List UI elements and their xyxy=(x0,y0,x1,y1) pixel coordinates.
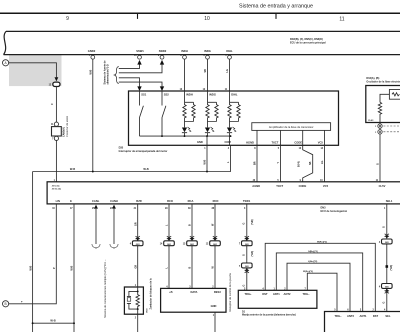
svg-text:11: 11 xyxy=(339,16,344,22)
svg-text:ECU de la carrocería principal: ECU de la carrocería principal xyxy=(290,42,326,45)
switch SS1 xyxy=(140,91,144,136)
svg-text:VC5: VC5 xyxy=(323,184,329,188)
svg-text:DST: DST xyxy=(373,314,379,318)
svg-text:ANT2: ANT2 xyxy=(347,314,354,318)
svg-text:W-B: W-B xyxy=(70,167,75,171)
svg-text:BZR: BZR xyxy=(136,199,142,203)
svg-text:DIHL: DIHL xyxy=(226,49,233,53)
wire GND2 down to W-B net xyxy=(92,59,94,171)
svg-text:G: G xyxy=(377,163,380,165)
svg-text:LIN: LIN xyxy=(56,199,60,203)
svg-text:Zumbador de bloqueo de la: Zumbador de bloqueo de la xyxy=(149,278,152,310)
junction dot link right xyxy=(73,322,75,324)
resistor R (oscillator) xyxy=(378,102,381,123)
R50 internals: branch xyxy=(127,287,138,309)
pin SSW1 xyxy=(134,49,144,59)
svg-text:W-B: W-B xyxy=(50,319,55,323)
svg-text:GR: GR xyxy=(134,222,137,226)
wire between rings xyxy=(379,128,381,129)
DN3 bottom pin CANL xyxy=(92,199,100,210)
svg-text:GND: GND xyxy=(211,304,217,308)
svg-text:RCO: RCO xyxy=(167,199,173,203)
DN3 bottom pin SEL1 xyxy=(384,199,393,210)
wire BZR down xyxy=(137,204,139,287)
pin INDH xyxy=(180,49,187,59)
handle FR pin labels xyxy=(244,292,310,296)
svg-text:TXCT: TXCT xyxy=(271,140,278,144)
svg-text:W-B: W-B xyxy=(204,159,207,164)
svg-text:DIHL: DIHL xyxy=(231,93,238,97)
oscillator D64 box xyxy=(366,86,400,123)
svg-text:W(Rn)(*2): W(Rn)(*2) xyxy=(317,241,327,243)
pin DIHL xyxy=(225,49,233,59)
svg-text:AGND: AGND xyxy=(252,184,260,188)
header tick 2 xyxy=(275,13,277,19)
DN3 bottom pin CANH xyxy=(110,199,118,210)
svg-text:Interruptor de arranque/parada: Interruptor de arranque/parada del motor xyxy=(119,150,168,153)
resistor pair INDG xyxy=(206,91,218,122)
pin INDG xyxy=(203,49,210,59)
svg-text:RES3: RES3 xyxy=(214,290,221,294)
staircase wire ANT2 xyxy=(287,263,350,311)
wire VC5 down xyxy=(324,145,326,182)
svg-text:Receptor de control de la puer: Receptor de control de la puerta xyxy=(228,273,232,312)
inline connector on RCO xyxy=(160,236,175,246)
pin GND2 xyxy=(88,49,96,59)
svg-text:INDG: INDG xyxy=(204,49,211,53)
wire rung to SSW1 xyxy=(119,64,140,68)
arrow down into SS2 xyxy=(160,86,164,91)
receiver pin labels xyxy=(169,290,221,294)
DN3 bottom pin RCA xyxy=(188,199,194,210)
svg-text:SSW2: SSW2 xyxy=(159,49,167,53)
DN3 internal references xyxy=(50,186,61,191)
svg-text:Oscilador de la llave electrón: Oscilador de la llave electrónica (p xyxy=(366,80,400,83)
svg-text:B(*4): B(*4) xyxy=(298,161,301,167)
wire W-B left riser xyxy=(32,172,34,332)
door control receiver box xyxy=(161,288,226,312)
wire TSW1 down xyxy=(246,204,248,290)
amplifier leads to box edge xyxy=(257,130,325,145)
svg-text:L(Bn)(*2): L(Bn)(*2) xyxy=(308,261,318,263)
dashed mate line 2 xyxy=(383,131,400,133)
svg-text:GB1: GB1 xyxy=(385,287,389,289)
svg-text:G: G xyxy=(383,302,386,304)
CANL brace end xyxy=(92,244,100,249)
svg-text:GB1: GB1 xyxy=(245,266,249,268)
svg-text:COM: COM xyxy=(225,140,232,144)
svg-text:TSW1: TSW1 xyxy=(243,199,251,203)
receiver top pin numbers xyxy=(166,286,214,289)
LED INDH xyxy=(182,122,191,137)
wire rung to SSW2 xyxy=(119,64,162,73)
svg-text:SS1: SS1 xyxy=(141,93,147,97)
svg-text:GB1: GB1 xyxy=(136,244,140,246)
svg-text:Conector de unión: Conector de unión xyxy=(65,115,69,137)
wire CODE down with jog xyxy=(303,145,313,182)
oscillator inner module xyxy=(389,90,400,100)
svg-text:G: G xyxy=(243,285,246,287)
DN3 top pin VC5 xyxy=(320,180,328,188)
staircase wire DST xyxy=(265,243,375,311)
handle FR designator xyxy=(242,310,296,316)
junction dot link left xyxy=(32,322,34,324)
svg-text:BR: BR xyxy=(254,161,257,165)
svg-text:GB1: GB1 xyxy=(385,242,389,244)
svg-text:W-B: W-B xyxy=(143,167,148,171)
wire junction connector to DN3 pin 1 xyxy=(55,141,57,182)
DN3 bottom pin RCO xyxy=(165,199,173,210)
junction dot COM drop xyxy=(230,135,232,137)
DN3 top pin CODE xyxy=(299,180,307,188)
wire RCD down xyxy=(214,204,216,289)
wire DIHL down xyxy=(229,59,231,91)
svg-text:+B: +B xyxy=(169,290,173,294)
svg-text:G(Bn)(*2): G(Bn)(*2) xyxy=(308,251,318,253)
inline connector 2 on TSW1 xyxy=(239,263,252,273)
wire RCO down xyxy=(168,204,170,289)
svg-text:(*H6): (*H6) xyxy=(390,265,393,271)
svg-text:ECU de homologación: ECU de homologación xyxy=(321,210,348,213)
wire from node A to connector xyxy=(9,63,57,78)
node A circle xyxy=(3,60,9,66)
junction dot GND2/bus xyxy=(92,171,94,173)
ECU band label xyxy=(290,38,326,45)
D35 bottom pin numbers xyxy=(204,147,323,150)
DN3 bottom pin LIN xyxy=(52,199,60,210)
svg-text:INDH: INDH xyxy=(186,93,193,97)
wire rung to SS1 xyxy=(119,78,140,87)
receiver GND wire xyxy=(214,312,216,332)
svg-text:W(Rn)(*2): W(Rn)(*2) xyxy=(303,271,313,273)
svg-text:B: B xyxy=(189,267,192,269)
svg-text:ANT1: ANT1 xyxy=(273,292,280,296)
wire GND down xyxy=(206,145,208,171)
wire TXCT down xyxy=(280,145,282,182)
DN3 bottom pin E xyxy=(70,199,73,210)
svg-text:GND: GND xyxy=(197,140,203,144)
wire LIN to node B xyxy=(9,204,57,304)
receiver GND pin xyxy=(211,304,217,317)
junction connector CAN5(A) xyxy=(51,115,69,140)
switch D35 box xyxy=(129,91,339,145)
svg-text:W-B: W-B xyxy=(89,69,92,74)
svg-text:G: G xyxy=(243,223,246,225)
wire RCA down xyxy=(191,204,193,289)
svg-text:SEL: SEL xyxy=(385,314,391,318)
svg-text:SSW1: SSW1 xyxy=(136,49,144,53)
svg-text:SEL1: SEL1 xyxy=(386,199,393,203)
R50 rotated label xyxy=(147,278,153,313)
W-B bottom link xyxy=(33,322,74,324)
svg-text:TRG+: TRG+ xyxy=(244,292,252,296)
wire INDH down xyxy=(184,59,186,91)
svg-text:RCD: RCD xyxy=(213,199,219,203)
svg-text:(*H6): (*H6) xyxy=(251,219,254,225)
wire CL5V down xyxy=(379,134,381,182)
oval in-line connector xyxy=(49,82,60,86)
R50 resistor xyxy=(136,291,139,309)
svg-text:SS2: SS2 xyxy=(164,93,170,97)
svg-text:CODE: CODE xyxy=(299,184,307,188)
wire CANL xyxy=(95,209,97,244)
svg-text:G: G xyxy=(383,226,386,228)
svg-text:B: B xyxy=(189,224,192,226)
inline connector on BZR xyxy=(130,236,143,246)
svg-text:DATA: DATA xyxy=(191,290,198,294)
CANH brace end xyxy=(110,244,118,249)
main body ECU band bottom edge xyxy=(4,54,400,56)
main body ECU band (DN4/DN5/DN6) top edge with break squiggle xyxy=(4,31,400,54)
header rule xyxy=(0,12,400,14)
junction dot GND/bus xyxy=(206,171,208,173)
connector ring 2 xyxy=(375,130,382,134)
gray highlight zone xyxy=(9,55,62,86)
staircase wire ANT1 xyxy=(276,253,362,312)
svg-text:SB: SB xyxy=(204,69,207,73)
svg-text:W-B: W-B xyxy=(29,265,32,270)
R50 junction dots xyxy=(137,290,139,292)
DN3 top pin TXCT xyxy=(276,180,283,188)
door handle FL box xyxy=(325,312,400,332)
certification ECU band DN3 xyxy=(47,182,400,204)
arrow up into SSW2 xyxy=(160,60,164,65)
svg-text:CL03: CL03 xyxy=(368,120,374,122)
pin SSW2 xyxy=(158,49,167,59)
svg-text:GB1: GB1 xyxy=(245,244,249,246)
svg-text:HGND: HGND xyxy=(246,140,254,144)
handle FR pin numbers xyxy=(244,287,306,290)
buzzer R50 box xyxy=(124,287,143,314)
header tick 1 xyxy=(137,13,139,19)
svg-text:→B 10-12): →B 10-12) xyxy=(50,189,61,191)
inline connector on RCD xyxy=(206,236,221,246)
LED INDG xyxy=(205,122,214,137)
DN3 bottom pin TSW1 xyxy=(243,199,251,210)
resistor pair INDH xyxy=(183,91,195,122)
svg-text:9: 9 xyxy=(66,16,69,22)
key amplifier sub-box xyxy=(252,123,331,131)
svg-text:Sistema de entrada y arranque: Sistema de entrada y arranque xyxy=(239,4,313,10)
DN3 designator xyxy=(321,207,348,213)
svg-text:INDG: INDG xyxy=(209,93,216,97)
svg-text:GND2: GND2 xyxy=(88,49,96,53)
D35 designator xyxy=(119,147,168,153)
DN3 bottom pin RCD xyxy=(211,199,218,210)
resistor pair DIHL xyxy=(228,91,240,122)
R50 bottom lead xyxy=(137,309,139,332)
DN3 bottom pin BZR xyxy=(134,199,142,210)
power source brace xyxy=(114,67,118,84)
staircase wire TRG- xyxy=(307,273,337,311)
svg-text:ANT1: ANT1 xyxy=(360,314,367,318)
junction dot SS2/common xyxy=(161,135,163,137)
door handle FR box xyxy=(238,290,317,308)
svg-text:CODE: CODE xyxy=(294,140,302,144)
arrow into junction connector pair xyxy=(55,77,59,81)
svg-text:LG: LG xyxy=(321,161,324,164)
svg-text:(*H6): (*H6) xyxy=(251,251,254,257)
svg-text:SB: SB xyxy=(309,161,312,165)
junction dot GND drop xyxy=(206,135,208,137)
svg-text:E: E xyxy=(70,199,72,203)
inline connector 2 on SEL1 xyxy=(379,284,392,294)
svg-text:LG: LG xyxy=(226,69,229,72)
svg-text:GR: GR xyxy=(134,265,137,269)
svg-text:alimentación(*1-D: alimentación(*1-D xyxy=(107,64,110,84)
LED DIHL xyxy=(227,122,236,146)
DN3 top pin AGND xyxy=(252,179,260,188)
svg-text:TRG−: TRG− xyxy=(334,314,342,318)
arrow up into CANL xyxy=(94,205,98,209)
wire CANH xyxy=(113,209,115,244)
arrow down into SS1 xyxy=(137,86,141,91)
handle FL pin numbers xyxy=(334,309,386,312)
node B circle xyxy=(3,301,9,307)
wire module to resistor xyxy=(380,94,389,102)
wire COM down and W-B bus xyxy=(33,145,231,171)
junction dot INDH/common xyxy=(184,135,186,137)
common line inside D35 xyxy=(140,136,231,145)
svg-text:W-B: W-B xyxy=(71,265,74,270)
power source note xyxy=(104,60,110,85)
D35 bottom pin labels xyxy=(197,140,323,144)
svg-text:TXCT: TXCT xyxy=(276,184,283,188)
connector ring 1 xyxy=(375,124,382,128)
oscillator D64 label xyxy=(366,77,400,83)
svg-text:RCA: RCA xyxy=(188,199,194,203)
DN3 top pin CL5V xyxy=(376,180,386,188)
inline connector on RCA xyxy=(183,236,198,246)
svg-text:Manija exterior de la puerta (: Manija exterior de la puerta (delantera … xyxy=(242,314,296,317)
wire rung to SS2 xyxy=(119,82,162,87)
svg-text:→B 9-11): →B 9-11) xyxy=(50,186,60,188)
handle FL pin labels xyxy=(334,314,391,318)
svg-text:GB1: GB1 xyxy=(167,244,171,246)
svg-text:GB1: GB1 xyxy=(190,244,194,246)
svg-text:ANT2: ANT2 xyxy=(284,292,291,296)
svg-text:VC5: VC5 xyxy=(318,140,324,144)
wire HGND down xyxy=(256,145,258,182)
svg-text:Amplificador de la llave de tr: Amplificador de la llave de transmisor xyxy=(269,125,314,129)
arrow up into SSW1 xyxy=(137,60,141,65)
svg-text:B: B xyxy=(5,302,7,306)
svg-text:GB1: GB1 xyxy=(213,244,217,246)
wire E down xyxy=(73,204,75,332)
dashed mate line 1 xyxy=(383,125,400,127)
wire SEL1 down xyxy=(386,204,388,312)
svg-text:CANH: CANH xyxy=(110,199,118,203)
wire INDG down xyxy=(207,59,209,91)
switch SS2 xyxy=(162,91,166,136)
svg-text:TRG−: TRG− xyxy=(302,292,310,296)
svg-text:CANL: CANL xyxy=(92,199,100,203)
svg-text:Sistema de comunicaciones múlt: Sistema de comunicaciones múltiple (CAN)… xyxy=(103,259,107,318)
piezo element xyxy=(127,298,130,302)
svg-text:G: G xyxy=(243,254,246,256)
inline connector 1 on TSW1 xyxy=(239,236,252,246)
arrow up into CANH xyxy=(112,205,116,209)
inline connector 1 on SEL1 xyxy=(379,234,392,244)
svg-text:INDH: INDH xyxy=(181,49,188,53)
wire down to junction connector xyxy=(55,87,57,123)
svg-text:CL5V: CL5V xyxy=(379,184,386,188)
svg-text:10: 10 xyxy=(204,16,210,22)
svg-text:DST: DST xyxy=(262,292,268,296)
